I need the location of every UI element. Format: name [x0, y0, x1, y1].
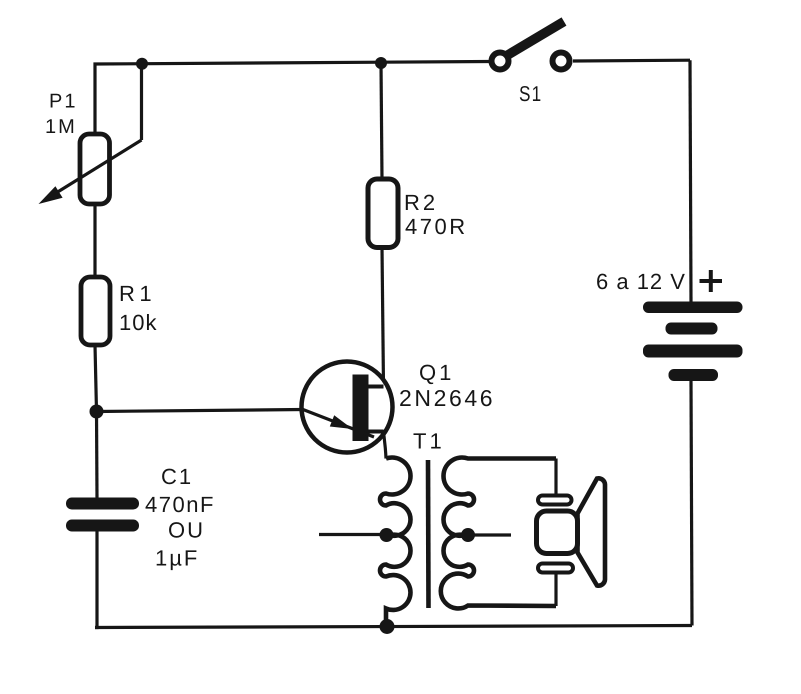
battery B1 plate 1 (long, positive)	[643, 302, 743, 314]
wire: R1 bottom to emitter node	[95, 345, 97, 412]
Q1 emitter diagonal	[303, 410, 374, 438]
svg-text:R1: R1	[119, 281, 156, 306]
label S1	[519, 82, 542, 106]
resistor R2 body	[368, 179, 398, 248]
svg-text:T1: T1	[413, 429, 445, 454]
wire: left rail C1 to bottom rail	[95, 531, 97, 628]
wire: P1 wiper vertical drop from node A	[140, 64, 143, 140]
switch S1 right terminal	[553, 53, 570, 70]
resistor R1 body	[81, 277, 110, 345]
svg-text:P1: P1	[49, 91, 77, 113]
wire: primary centre-tap stub	[319, 533, 387, 536]
wire: top rail left segment (P1 corner to S1 left terminal)	[95, 62, 489, 135]
wire: right rail battery negative down to bottom right corner	[691, 381, 692, 626]
battery positive sign	[700, 279, 723, 283]
svg-text:R2: R2	[404, 190, 438, 215]
transformer T1 primary winding	[380, 458, 411, 627]
capacitor C1 bottom plate	[66, 520, 139, 532]
speaker voice coil box	[537, 511, 578, 554]
wire: right rail from top corner down to battery positive plate	[690, 60, 691, 301]
svg-text:OU: OU	[168, 518, 205, 543]
svg-text:10k: 10k	[119, 310, 157, 335]
speaker bottom terminal bar	[538, 564, 573, 573]
svg-text:1µF: 1µF	[155, 546, 199, 571]
potentiometer P1 wiper arrowhead	[39, 186, 63, 204]
svg-text:6 a 12 V: 6 a 12 V	[596, 269, 686, 294]
transistor Q1 base bar	[353, 375, 369, 442]
node E: bottom rail junction dot at T1 primary	[380, 619, 395, 634]
svg-text:C1: C1	[161, 464, 193, 489]
transistor Q1 circle	[302, 362, 393, 453]
wire: emitter node down to C1 top plate	[95, 412, 99, 499]
battery B1 plate 4 (short, negative)	[669, 369, 719, 381]
Q1 base2 stub	[367, 385, 384, 389]
speaker top terminal bar	[538, 496, 572, 505]
node B: emitter junction dot on left rail	[90, 405, 104, 419]
potentiometer P1 body	[80, 134, 110, 204]
wire: R2 bottom to Q1 base2	[382, 248, 384, 387]
wire: speaker top lead drop	[554, 459, 557, 497]
wire: P1 wiper diagonal arm	[52, 140, 142, 196]
svg-text:Q1: Q1	[419, 360, 454, 385]
switch S1 left terminal	[492, 53, 509, 70]
battery B1 plate 2 (short)	[666, 323, 718, 335]
speaker cone	[578, 478, 606, 585]
wire: P1 bottom to R1 top	[93, 204, 96, 277]
Q1 emitter arrowhead	[330, 415, 353, 429]
battery B1 plate 3 (long)	[643, 345, 743, 358]
capacitor C1 top plate	[66, 498, 139, 510]
wire: bottom rail	[95, 626, 692, 628]
node C: junction dot of R2 branch on top rail	[375, 57, 387, 69]
svg-text:470nF: 470nF	[145, 492, 215, 517]
node F: secondary tap junction dot	[461, 528, 475, 542]
wire: secondary centre-tap stub	[468, 533, 511, 536]
svg-text:470R: 470R	[405, 214, 468, 239]
wire: Q1 base1 down to T1 primary	[384, 432, 387, 459]
wire: top rail right segment (S1 right terminal to battery positive corner)	[573, 59, 690, 63]
transformer T1 core	[426, 460, 431, 608]
wire: top rail to R2 top	[381, 63, 382, 179]
switch S1 blade	[506, 22, 564, 57]
svg-text:2N2646: 2N2646	[399, 385, 495, 411]
Q1 base1 stub	[367, 430, 384, 434]
svg-text:S1: S1	[519, 82, 542, 106]
transformer T1 secondary winding with top lead to speaker	[441, 458, 556, 609]
wire: emitter horizontal from node B to Q1	[97, 410, 304, 412]
node D: primary tap junction dot	[380, 528, 394, 542]
wire: speaker bottom lead rise	[554, 572, 557, 606]
node A: junction dot of P1 wiper on top rail	[136, 58, 148, 70]
svg-text:1M: 1M	[45, 116, 77, 138]
